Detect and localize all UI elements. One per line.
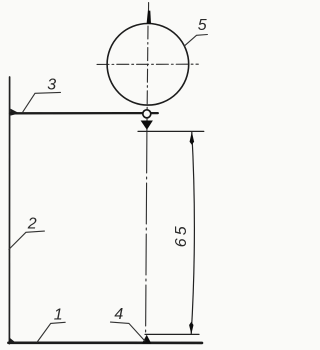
label 3 leader <box>23 92 61 112</box>
support triangle 4 at floor <box>142 335 152 344</box>
arrowhead top of dimension line <box>190 132 195 145</box>
contact roller circle (small) <box>143 110 151 118</box>
node: wall-bar junction fillet <box>10 109 19 116</box>
svg-text:5: 5 <box>198 17 207 34</box>
svg-text:1: 1 <box>54 307 63 324</box>
node: bottom-left corner fillet <box>9 337 17 343</box>
wire: bottom floor line 1 <box>8 341 202 344</box>
roller circle 5 <box>107 24 189 106</box>
label 4 leader <box>111 322 145 341</box>
force arrow at top of roller <box>147 11 151 24</box>
wire: top extension line of dimension <box>138 130 204 132</box>
wire: vertical wall line 2 <box>8 77 10 344</box>
label 5 leader <box>184 35 207 46</box>
label 2 leader <box>9 231 45 249</box>
wire: horizontal bar line 3 <box>10 112 158 115</box>
arrowhead under contact roller <box>141 121 153 130</box>
svg-text:4: 4 <box>114 306 123 323</box>
svg-text:3: 3 <box>47 76 56 93</box>
wire: vertical dash-dot centerline (lower) <box>146 132 147 336</box>
wire: horizontal dash-dot centerline <box>97 63 198 65</box>
svg-text:2: 2 <box>27 216 37 233</box>
svg-text:65: 65 <box>173 223 190 247</box>
wire: dimension line 65 <box>191 132 194 334</box>
wire: bottom extension line of dimension <box>145 333 199 335</box>
label 1 leader <box>37 322 65 342</box>
arrowhead bottom of dimension line <box>189 322 193 334</box>
wire: vertical dash-dot centerline (upper) <box>147 3 149 131</box>
